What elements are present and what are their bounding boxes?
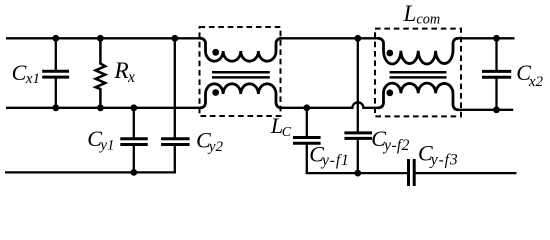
capacitor Cy1 bbox=[120, 108, 147, 173]
common-mode choke Lcom dashed box bbox=[375, 29, 461, 117]
svg-text:y-f3: y-f3 bbox=[429, 152, 459, 169]
svg-text:R: R bbox=[113, 58, 128, 84]
choke LC bottom winding bbox=[200, 84, 282, 108]
node dot Rx bottom bbox=[97, 104, 104, 111]
common-mode choke LC dashed box bbox=[200, 27, 281, 116]
node dot Cy1 top bbox=[130, 104, 137, 111]
wire top rail right segment bbox=[458, 37, 515, 39]
choke LC top winding polarity dot bbox=[212, 49, 219, 56]
choke Lcom top winding bbox=[378, 38, 459, 64]
svg-text:x: x bbox=[127, 69, 135, 86]
choke LC core bbox=[212, 71, 270, 74]
wire bottom left rail bbox=[5, 171, 176, 173]
node dot Rx top bbox=[97, 35, 104, 42]
node dot Cx1 bottom bbox=[52, 104, 59, 111]
node dot Cy-f2 wire top bbox=[354, 35, 361, 42]
capacitor Cx1 bbox=[42, 38, 69, 108]
node dot Cx1 top bbox=[52, 35, 59, 42]
svg-text:com: com bbox=[416, 12, 440, 28]
wire top rail left segment bbox=[6, 37, 201, 39]
choke Lcom top winding polarity dot bbox=[386, 50, 393, 57]
svg-text:x1: x1 bbox=[25, 71, 40, 87]
choke LC bottom winding polarity dot bbox=[212, 89, 219, 96]
svg-text:y-f1: y-f1 bbox=[320, 152, 350, 169]
wire top rail middle segment bbox=[281, 37, 379, 39]
svg-text:y1: y1 bbox=[98, 137, 114, 153]
svg-text:y-f2: y-f2 bbox=[382, 137, 410, 154]
choke Lcom core bbox=[390, 71, 447, 74]
wire middle rail right segment bbox=[458, 109, 513, 111]
svg-text:L: L bbox=[403, 1, 417, 26]
wire bottom right segment A bbox=[306, 172, 407, 174]
vertical wire from top rail to Cy-f2 crossing middle rail under hop bbox=[357, 38, 359, 173]
capacitor Cy-f3 (horizontal, in bottom wire) bbox=[409, 159, 415, 186]
resistor Rx bbox=[96, 38, 106, 108]
node dot Cy-f2 wire bottom bbox=[354, 170, 361, 177]
svg-text:C: C bbox=[282, 125, 292, 140]
svg-text:y2: y2 bbox=[207, 139, 224, 155]
node dot Cy-f1 top bbox=[303, 104, 310, 111]
node dot Cx2 bottom bbox=[493, 106, 500, 113]
node dot Cy1 bottom bbox=[130, 169, 137, 176]
wire middle rail center segment with hop over vertical wire bbox=[281, 102, 379, 108]
svg-text:C: C bbox=[12, 60, 27, 85]
capacitor Cx2 bbox=[482, 38, 511, 110]
choke Lcom bottom winding bbox=[378, 83, 459, 110]
node dot Cy2 top bbox=[171, 35, 178, 42]
wire middle rail left segment bbox=[6, 107, 201, 109]
capacitor Cy-f1 bbox=[293, 108, 321, 174]
node dot Cx2 top bbox=[493, 35, 500, 42]
svg-text:x2: x2 bbox=[528, 74, 544, 90]
choke Lcom bottom winding polarity dot bbox=[386, 89, 393, 96]
wire bottom right segment B bbox=[416, 172, 517, 174]
capacitor Cy2 with wire from top rail crossing middle rail bbox=[161, 38, 190, 173]
capacitor Cy-f2 bbox=[344, 133, 372, 139]
choke LC top winding bbox=[200, 38, 282, 61]
